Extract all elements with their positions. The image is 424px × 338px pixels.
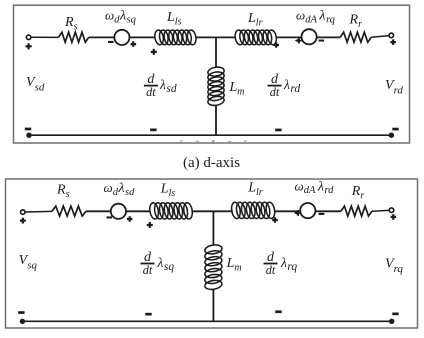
svg-text:(a) d-axis: (a) d-axis — [183, 155, 240, 171]
svg-text:dt: dt — [143, 263, 153, 277]
svg-text:dt: dt — [270, 85, 280, 99]
svg-text:dt: dt — [266, 263, 276, 277]
svg-text:dt: dt — [146, 85, 156, 99]
